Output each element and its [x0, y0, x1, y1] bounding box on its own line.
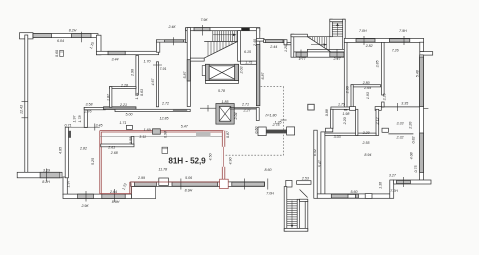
- corridor step horizontal: [287, 42, 291, 44]
- svg-text:5.06: 5.06: [185, 176, 192, 180]
- svg-text:5.78: 5.78: [218, 89, 225, 93]
- stair core1 left wall: [187, 28, 190, 107]
- svg-text:6.04: 6.04: [57, 39, 64, 43]
- red wall door gap: [222, 147, 226, 167]
- window block 5.60: [348, 194, 355, 198]
- red bottom-left run: [100, 193, 131, 195]
- svg-text:3.27: 3.27: [389, 174, 397, 178]
- stair2 upper shaft top wall: [330, 19, 345, 22]
- red SE pier: [220, 179, 229, 188]
- svg-text:7.9Н: 7.9Н: [399, 29, 407, 33]
- svg-text:2.64: 2.64: [109, 190, 117, 194]
- svg-text:4.50: 4.50: [209, 154, 213, 161]
- svg-text:1.20: 1.20: [284, 45, 288, 52]
- window W3: [108, 51, 125, 54]
- corridor wall thin extension: [173, 109, 187, 111]
- svg-text:81Н - 52,9: 81Н - 52,9: [168, 157, 206, 166]
- door leaf stair lobby: [202, 66, 205, 76]
- BR west door block: [326, 128, 333, 132]
- partition line right of U2: [234, 108, 256, 110]
- tick 3.45: [94, 124, 96, 131]
- window W11: [330, 52, 344, 57]
- svg-text:4.90: 4.90: [229, 158, 233, 165]
- svg-text:1.87: 1.87: [107, 93, 111, 101]
- svg-text:1.97: 1.97: [67, 180, 71, 188]
- red top line inner: [101, 131, 222, 133]
- svg-text:0.98: 0.98: [163, 131, 167, 138]
- wall D step: [156, 40, 159, 52]
- tick 7.0H: [363, 36, 365, 45]
- tick 2.9K: [85, 191, 87, 202]
- partition line left of U2: [200, 107, 216, 109]
- svg-text:3.25: 3.25: [383, 94, 387, 101]
- staircase 3 down: [284, 187, 308, 232]
- stair2 lower flight hatch: [310, 37, 329, 51]
- svg-text:7.9К: 7.9К: [200, 18, 208, 22]
- apartments divider wall segment 2: [381, 106, 419, 108]
- svg-text:4.67: 4.67: [151, 78, 155, 86]
- tick wall A: [81, 32, 83, 42]
- svg-text:3.11: 3.11: [139, 135, 146, 139]
- lintel dark 6.15 room: [242, 28, 250, 31]
- TR right notch horizontal: [420, 52, 433, 56]
- bottom-left jut wall: [17, 172, 62, 178]
- BR door rect: [382, 128, 388, 132]
- svg-text:0.82: 0.82: [412, 137, 416, 144]
- corridor bottom wall 81H: [131, 182, 265, 187]
- BR shaft east wall: [376, 109, 379, 135]
- svg-text:3.45: 3.45: [96, 124, 103, 128]
- middle apartment: [226, 87, 315, 156]
- svg-text:2.47: 2.47: [333, 57, 342, 61]
- stair1 arrow head: [233, 34, 237, 36]
- svg-text:7.2Н: 7.2Н: [390, 189, 398, 193]
- hatched box on top wall: [153, 129, 161, 134]
- svg-text:5.47: 5.47: [181, 124, 189, 128]
- wall below elevator U1: [205, 81, 238, 84]
- svg-text:2.32: 2.32: [396, 135, 404, 139]
- wing partition P1: [136, 55, 139, 95]
- appliance rect: [162, 147, 168, 153]
- svg-text:2.9К: 2.9К: [80, 204, 89, 208]
- elevator U1 car: [209, 66, 234, 79]
- wall C horizontal: [96, 51, 158, 54]
- svg-text:2.53: 2.53: [301, 176, 309, 180]
- cross tick h=1.80: [281, 119, 287, 121]
- corridor door rect: [286, 180, 292, 187]
- 6.15 room bottom wall: [241, 61, 257, 64]
- partition double line: [230, 107, 257, 109]
- window W18: [232, 182, 265, 186]
- wall B vertical: [96, 35, 101, 55]
- red top line outer: [100, 130, 224, 132]
- wall between stair2 and TR apartment: [344, 42, 347, 110]
- svg-text:2.82: 2.82: [365, 44, 373, 48]
- svg-text:2.76: 2.76: [84, 109, 92, 113]
- svg-text:6.87: 6.87: [261, 72, 265, 80]
- svg-text:5.47: 5.47: [318, 159, 322, 167]
- wall E horizontal: [156, 40, 186, 42]
- window W13: [389, 39, 409, 42]
- svg-text:0.75: 0.75: [414, 166, 418, 173]
- svg-text:8.9Н: 8.9Н: [185, 188, 193, 192]
- TR partition vertical lower piece: [382, 102, 385, 107]
- svg-text:2.21: 2.21: [119, 103, 127, 107]
- svg-text:2.4К: 2.4К: [167, 25, 176, 29]
- svg-text:2.75: 2.75: [272, 123, 280, 127]
- jut vertical wall: [63, 177, 67, 195]
- red door line: [223, 147, 225, 167]
- window W4: [165, 40, 184, 42]
- svg-text:7.0Н: 7.0Н: [266, 191, 274, 195]
- svg-text:2.44: 2.44: [269, 45, 277, 49]
- window W5: [194, 28, 210, 31]
- red bottom run: [130, 181, 220, 183]
- dashed h=1.80 horizontal top: [261, 86, 284, 88]
- svg-text:11.78: 11.78: [158, 168, 167, 172]
- dashed vertical: [283, 87, 285, 156]
- stair2 east wall: [343, 19, 346, 57]
- tick 2.64: [113, 189, 115, 202]
- corridor step vertical: [284, 40, 287, 45]
- svg-text:7.26: 7.26: [392, 49, 399, 53]
- svg-text:1.70: 1.70: [144, 60, 151, 64]
- svg-text:4.05: 4.05: [58, 147, 62, 154]
- apartment top wall body: [100, 135, 222, 137]
- svg-text:3.35: 3.35: [401, 102, 408, 106]
- divider block 1: [350, 107, 356, 111]
- left exterior wall: [25, 35, 28, 173]
- svg-text:12.43: 12.43: [19, 105, 23, 114]
- svg-text:2.99: 2.99: [137, 176, 145, 180]
- dimension labels rotated: [19, 39, 419, 191]
- stair1 diagonal: [204, 42, 237, 59]
- window W12: [356, 39, 375, 42]
- stair2 window band: [294, 52, 345, 57]
- window W14: [331, 194, 358, 198]
- wall G stair core top: [186, 28, 260, 31]
- small room wall vertical: [110, 87, 112, 108]
- svg-text:0.71: 0.71: [65, 123, 72, 127]
- svg-text:7.0Н: 7.0Н: [359, 29, 367, 33]
- tick left wall 2: [22, 117, 29, 119]
- stair3 bottom wall: [284, 228, 308, 231]
- svg-text:1.71: 1.71: [135, 93, 139, 100]
- TR right wall gray upper: [420, 57, 424, 107]
- stair2 up arrow head: [336, 23, 338, 26]
- corridor wall left segment: [84, 107, 105, 109]
- svg-text:1.93: 1.93: [366, 92, 370, 99]
- svg-text:2.40: 2.40: [253, 39, 257, 47]
- svg-text:3.19: 3.19: [43, 169, 50, 173]
- stair2 bottom wall: [307, 49, 345, 52]
- svg-text:3.03: 3.03: [334, 135, 341, 139]
- svg-text:0.87: 0.87: [226, 130, 230, 138]
- partition wall end: [256, 108, 259, 121]
- elevator U2 outer: [216, 104, 234, 125]
- window W17: [172, 182, 218, 186]
- svg-text:1.77: 1.77: [299, 57, 307, 61]
- appliance rect top-left wing: [60, 50, 64, 56]
- red right wall: [221, 131, 223, 181]
- step link 6.15 room to corridor: [256, 38, 264, 41]
- svg-text:2.71: 2.71: [241, 103, 249, 107]
- svg-text:2.00: 2.00: [346, 86, 350, 94]
- stair3 diagonal: [300, 190, 308, 198]
- window W15: [397, 180, 411, 183]
- tick 7.9H: [403, 36, 405, 45]
- stair2 diagonal: [307, 37, 330, 52]
- svg-text:1.71: 1.71: [119, 121, 126, 125]
- door block 81H bottom: [159, 178, 169, 185]
- 6.15 room right wall gray part: [256, 45, 259, 106]
- svg-text:7.91: 7.91: [160, 67, 167, 71]
- red left wall: [99, 131, 101, 194]
- window W8: [102, 194, 125, 198]
- svg-text:0.88: 0.88: [325, 109, 329, 116]
- stair3 right inner wall: [297, 199, 299, 228]
- staircase 1 upper flight: [213, 31, 237, 42]
- svg-text:3.85: 3.85: [375, 61, 379, 68]
- BR west wall lower: [321, 132, 325, 194]
- tick stair2 window 1: [300, 50, 302, 60]
- svg-text:1.75: 1.75: [245, 61, 252, 65]
- stair3 left wall: [284, 187, 287, 232]
- inner left wall: [65, 127, 68, 178]
- wing room dark wall: [104, 107, 137, 110]
- svg-text:3.58: 3.58: [86, 103, 93, 107]
- bottom band left: [63, 194, 131, 198]
- duct right box: [287, 127, 295, 135]
- tick 3.19: [45, 169, 47, 182]
- stair2 upper shaft left wall: [330, 19, 333, 37]
- apartments divider wall segment 1: [331, 107, 350, 109]
- tick right wall joint: [424, 108, 429, 110]
- red jog up: [129, 182, 131, 194]
- BR bottom-right wall: [394, 180, 431, 184]
- svg-text:8.60: 8.60: [265, 168, 272, 172]
- svg-text:1.75: 1.75: [338, 103, 345, 107]
- svg-text:0.60: 0.60: [55, 50, 59, 57]
- svg-text:1.98: 1.98: [342, 112, 349, 116]
- TR right wall gray lower: [420, 133, 424, 173]
- stair2 upper flight steps: [332, 23, 342, 36]
- TR partition small vertical: [351, 85, 353, 108]
- wall A top-left exterior: [33, 34, 98, 38]
- stair3 outer right wall: [305, 202, 308, 232]
- door rect on top wall: [126, 125, 132, 129]
- svg-text:0.63: 0.63: [140, 89, 144, 96]
- stair3 steps: [287, 199, 297, 225]
- svg-text:2.55: 2.55: [362, 141, 370, 145]
- svg-text:2.28: 2.28: [120, 83, 128, 87]
- left room partition vertical: [131, 136, 134, 144]
- TR apartment top wall: [344, 38, 423, 42]
- svg-text:1.97: 1.97: [73, 115, 77, 123]
- svg-text:6.52: 6.52: [313, 149, 317, 156]
- svg-text:1.85: 1.85: [222, 100, 229, 104]
- window W10: [296, 52, 307, 57]
- svg-text:5.60: 5.60: [351, 190, 358, 194]
- svg-text:2.12: 2.12: [375, 118, 379, 126]
- svg-text:2.04: 2.04: [234, 113, 238, 121]
- tick wall G: [202, 25, 204, 36]
- 6.15 room right wall: [256, 28, 259, 106]
- stair1 divider wall: [238, 31, 241, 62]
- svg-text:2.82: 2.82: [79, 146, 87, 150]
- svg-text:5.00: 5.00: [126, 112, 133, 116]
- svg-text:1.58: 1.58: [129, 137, 133, 144]
- door block bottom: [365, 194, 372, 199]
- BR west wall upper: [331, 109, 334, 128]
- svg-text:1.36: 1.36: [379, 182, 383, 189]
- svg-text:5.87: 5.87: [183, 71, 187, 79]
- wing partition P2: [156, 62, 158, 107]
- svg-text:6.15: 6.15: [244, 50, 251, 54]
- stair core1 left wall gray part: [187, 60, 190, 81]
- stair3 down arrow head: [291, 225, 293, 228]
- dashed horizontal lower: [226, 154, 284, 156]
- tick 7.2H: [402, 177, 404, 187]
- wall F vertical: [186, 28, 189, 43]
- svg-text:2.72: 2.72: [161, 101, 169, 105]
- window W9: [266, 40, 283, 43]
- svg-text:2.27: 2.27: [243, 109, 252, 113]
- window W2: [72, 34, 92, 38]
- BR bottom wall band: [317, 194, 390, 198]
- svg-text:2.68: 2.68: [110, 151, 118, 155]
- svg-text:4.08: 4.08: [410, 152, 414, 159]
- BR closet partition horizontal: [325, 133, 358, 135]
- window W7: [78, 194, 94, 198]
- svg-text:2.20: 2.20: [343, 117, 347, 125]
- tick wall E: [172, 37, 174, 45]
- svg-text:2.20: 2.20: [362, 131, 370, 135]
- corridor jog vertical: [84, 107, 87, 127]
- window W1: [33, 34, 52, 38]
- svg-text:8.2Н: 8.2Н: [42, 180, 50, 184]
- svg-text:8.94: 8.94: [364, 153, 371, 157]
- wall A left end cap: [20, 33, 34, 39]
- stair3 top wall right: [300, 199, 308, 201]
- corridor top wall: [264, 40, 284, 43]
- stair2 lower flight top edge: [307, 36, 330, 38]
- gray seg on top wall: [196, 132, 211, 136]
- svg-text:1.69: 1.69: [144, 128, 151, 132]
- stair2 arrow head: [324, 43, 327, 45]
- tick stair2 window 2: [336, 50, 338, 60]
- elevator U2 car: [219, 107, 231, 122]
- svg-text:2.03: 2.03: [240, 67, 244, 75]
- TR right exterior wall: [420, 55, 424, 180]
- svg-text:0.60: 0.60: [254, 127, 258, 134]
- svg-text:3.44: 3.44: [112, 58, 119, 62]
- corridor 2.53 wall: [297, 181, 311, 185]
- svg-text:2.20: 2.20: [408, 122, 412, 130]
- svg-text:8.9Н: 8.9Н: [112, 200, 120, 204]
- divider block 2: [375, 107, 381, 111]
- svg-text:2.69: 2.69: [363, 86, 371, 90]
- svg-text:2.90: 2.90: [131, 69, 135, 77]
- tick near U2: [207, 105, 209, 112]
- left room partition horizontal: [101, 144, 134, 147]
- BR shaft west wall: [356, 109, 358, 135]
- duct bar: [266, 130, 286, 134]
- TR partition vertical: [382, 42, 385, 95]
- TR right notch vertical: [420, 42, 424, 51]
- tick corridor: [243, 179, 245, 190]
- svg-text:5.25: 5.25: [91, 158, 95, 165]
- svg-text:h=1.80: h=1.80: [265, 113, 276, 117]
- svg-text:12.85: 12.85: [160, 117, 169, 121]
- small room wall horizontal: [110, 87, 137, 89]
- elevator U1 outer: [202, 64, 238, 83]
- corridor wall main: [115, 109, 190, 111]
- stair1 landing wall: [190, 58, 204, 61]
- stair core2 north-west wall: [291, 34, 307, 37]
- tick 5.06: [180, 179, 182, 190]
- column square: [308, 104, 314, 110]
- svg-text:1.78: 1.78: [78, 116, 82, 123]
- tick 7.0H: [267, 179, 269, 190]
- svg-text:5.48: 5.48: [416, 70, 420, 77]
- BR right partition: [388, 133, 413, 135]
- window W16: [135, 182, 157, 186]
- BR shaft bottom wall: [358, 133, 376, 135]
- tick left wall 1: [22, 101, 29, 103]
- svg-text:3.33: 3.33: [397, 122, 404, 126]
- svg-text:2.80: 2.80: [362, 81, 370, 85]
- duct left box: [258, 127, 266, 136]
- svg-text:8.2Н: 8.2Н: [69, 29, 77, 33]
- stair1 lower flight hatch: [208, 42, 232, 57]
- dim line 3.45: [69, 126, 100, 128]
- TR partition horizontal: [351, 85, 381, 87]
- window W6: [40, 172, 60, 178]
- stair core2 west wall: [291, 34, 294, 57]
- stair1 flight bottom edge: [204, 41, 237, 43]
- flue mark: [68, 131, 71, 138]
- corridor east wall: [314, 130, 317, 198]
- BR bottom step wall: [390, 180, 394, 198]
- dimension labels horizontal: [42, 18, 408, 208]
- svg-text:2.61: 2.61: [107, 145, 115, 149]
- tick partition P2: [153, 64, 162, 66]
- loggia outline: [132, 187, 156, 199]
- red apartment boundary: [100, 131, 228, 194]
